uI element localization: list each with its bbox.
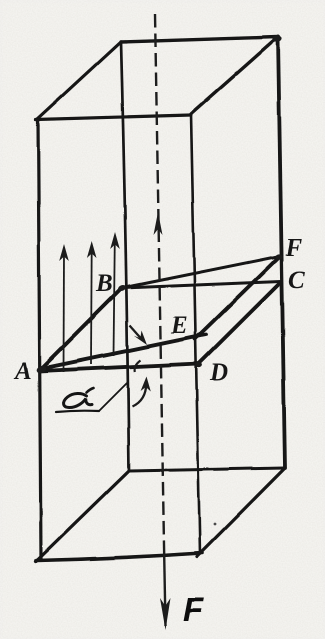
prism: bottom right diagonal edge (197, 468, 285, 557)
alpha underline (56, 411, 99, 412)
alpha leader line (99, 382, 128, 411)
normal section edge D-C (197, 282, 281, 366)
svg-text:C: C (288, 267, 305, 294)
stress arrow 1 on left face (59, 244, 69, 372)
axis of bar (dash-dot center line) (155, 14, 166, 626)
ink blob at node B (117, 284, 126, 292)
alpha label (56, 382, 128, 412)
prism: front-left vertical edge (38, 119, 41, 560)
prism: front-right vertical edge (191, 114, 200, 554)
ink blob at node A (36, 365, 48, 375)
svg-text:A: A (13, 358, 32, 385)
prism: bottom left diagonal edge (36, 471, 129, 562)
normal section edge A-B (40, 288, 122, 370)
prism: bottom front edge (37, 553, 203, 561)
oblique section edge D'-F (195, 256, 280, 339)
alpha small arc between section traces (135, 361, 141, 373)
stress arrow 2 on left face (87, 241, 97, 364)
svg-text:E: E (170, 312, 188, 339)
alpha arc with up arrowhead (below A-D trace) (133, 377, 151, 407)
svg-text:D: D (209, 359, 228, 386)
ink speck (214, 523, 217, 526)
force F arrowhead (bottom, pointing down) (160, 598, 171, 630)
svg-text:F: F (183, 591, 204, 628)
prism: top left diagonal edge (37, 42, 121, 120)
normal section edge A-D (40, 364, 199, 372)
axis upward arrowhead (154, 212, 163, 235)
prism: top back edge (121, 37, 278, 42)
svg-text:F: F (285, 235, 303, 262)
prism: bottom back edge (129, 468, 285, 471)
ink blob at node F (276, 254, 283, 259)
ink blob at corner TBR (272, 35, 281, 41)
normal section edge B-C (122, 282, 281, 289)
alpha angle leader arrow (upper, pointing at oblique trace) (130, 326, 148, 346)
svg-text:B: B (95, 270, 113, 297)
prism: top right diagonal edge (191, 37, 278, 114)
prism: top front edge (36, 115, 191, 120)
oblique section edge A-D' (40, 335, 206, 370)
oblique section edge B-F (122, 256, 280, 288)
prism: back-left vertical edge (121, 42, 129, 471)
prism: back-right vertical edge (278, 37, 285, 468)
ink blob at node D (195, 362, 202, 367)
stress arrow 3 on left face (110, 232, 120, 356)
